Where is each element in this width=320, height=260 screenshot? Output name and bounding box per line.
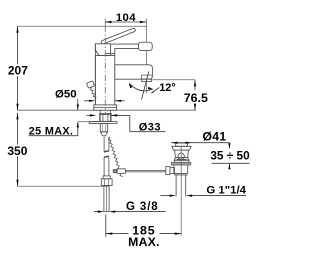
- arrow 207 up: [16, 26, 18, 33]
- cap notch diagonal: [95, 50, 99, 55]
- dim 104 line: [105, 21, 146, 23]
- dim 207 line: [17, 26, 19, 64]
- svg-text:35 ÷ 50: 35 ÷ 50: [210, 148, 250, 162]
- body left wall: [94, 44, 96, 105]
- svg-text:350: 350: [7, 144, 27, 158]
- arrow 207 down: [16, 104, 18, 111]
- rod: [113, 169, 174, 171]
- cartridge cap: [95, 44, 110, 56]
- arrow 35-50 up: [228, 164, 230, 169]
- wire: 76.5 top extension from spout: [153, 79, 195, 81]
- tailpipe walls: [175, 175, 177, 197]
- dim 350 line: [17, 113, 19, 145]
- break cut top: [104, 151, 109, 152]
- wire: D33 underline: [130, 131, 166, 133]
- svg-text:207: 207: [8, 64, 28, 78]
- hose collar: [103, 176, 110, 179]
- wire: leader vertical: [129, 115, 131, 131]
- rod nut at drain: [166, 167, 170, 175]
- arrow 104 right: [140, 21, 147, 23]
- dim segments: [106, 233, 129, 235]
- left extension: [105, 214, 107, 236]
- gasket (shaded): [171, 162, 191, 165]
- drain centerline / 185 right extension: [180, 147, 182, 236]
- arrow d50 right: [115, 100, 121, 102]
- rod end cap: [113, 170, 116, 173]
- arrow d41 right: [186, 142, 192, 144]
- wire: leader horizontal: [111, 114, 130, 116]
- plug seat line: [177, 158, 187, 160]
- spout block: [115, 65, 153, 79]
- arrow d50 leader down: [77, 105, 79, 110]
- body shoulder line: [105, 53, 115, 55]
- 35-50 stub top: [228, 143, 230, 149]
- left segment: [161, 195, 170, 197]
- leader to text: [151, 87, 159, 93]
- underline: [115, 211, 165, 213]
- wire: right tail: [115, 100, 125, 102]
- wire: leader down to deck: [77, 99, 79, 110]
- lock nut: [100, 114, 111, 121]
- wire: 350 bottom extension line: [18, 185, 109, 187]
- 35-50 bottom line: [212, 162, 250, 164]
- body top edge: [95, 55, 114, 57]
- big washer: [89, 122, 117, 124]
- arrow d33 right: [111, 114, 117, 116]
- rod clevis block: [117, 169, 125, 174]
- wire: riser to washer: [77, 122, 79, 136]
- arrow 25max up: [77, 122, 79, 128]
- base plinth: [94, 105, 117, 110]
- svg-text:104: 104: [116, 12, 136, 24]
- svg-text:Ø33: Ø33: [139, 122, 161, 134]
- aerator protrusion: [142, 79, 152, 81]
- aerator inner lines: [141, 74, 152, 76]
- plug cup: [175, 150, 189, 158]
- hose lower segment: [103, 157, 105, 176]
- arrow 350 down: [16, 180, 18, 187]
- arrow d41 left: [171, 142, 177, 144]
- angle arc: [129, 83, 153, 91]
- svg-text:G 3/8: G 3/8: [126, 201, 159, 213]
- washer under deck: [99, 113, 112, 115]
- left tail: [94, 211, 98, 213]
- tilted aerator axis: [142, 72, 149, 100]
- arrow 185 right: [175, 233, 182, 235]
- svg-text:Ø41: Ø41: [203, 129, 227, 143]
- break cut bottom: [104, 156, 109, 157]
- D41 line: [171, 142, 229, 144]
- pop-up rod spring (diagonal): [108, 137, 122, 177]
- plug bell: [174, 158, 189, 161]
- pop-up upper spring: [90, 87, 96, 99]
- arrow d33 left: [90, 114, 96, 116]
- dim 76.5 line: [194, 80, 196, 91]
- 35-50 stub bottom: [228, 163, 230, 169]
- arrow 185 left: [106, 233, 113, 235]
- wire: washer reference line: [78, 121, 100, 123]
- threaded tail: [100, 124, 107, 132]
- shank walls: [99, 110, 101, 121]
- svg-text:12°: 12°: [159, 82, 176, 94]
- wire: underline of 25 MAX: [29, 135, 79, 137]
- handle lever (closed position) bar: [107, 44, 139, 48]
- arrow 76.5 down: [194, 104, 196, 111]
- body right wall: [114, 48, 116, 105]
- plug flange: [172, 146, 191, 150]
- svg-text:25 MAX.: 25 MAX.: [29, 126, 73, 138]
- hose end tube: [104, 186, 109, 212]
- arrow g114 left: [170, 195, 176, 197]
- arrow d50 left: [89, 100, 95, 102]
- tail cone tip: [100, 132, 107, 136]
- pop-up knob behind faucet: [86, 81, 94, 89]
- wire: left tail: [87, 114, 91, 116]
- arrow 35-50 down: [228, 143, 230, 148]
- arrow 76.5 up: [194, 80, 196, 87]
- arrow 350 up: [16, 113, 18, 120]
- underline segment: [192, 195, 246, 197]
- svg-text:MAX.: MAX.: [128, 235, 160, 249]
- coupling rings: [174, 173, 188, 175]
- label 207 (with halo): [7, 65, 30, 76]
- svg-text:G 1"1/4: G 1"1/4: [206, 185, 246, 197]
- plug top knob: [176, 143, 188, 146]
- svg-text:76.5: 76.5: [184, 91, 208, 105]
- wire: 207 top extension line: [18, 25, 147, 27]
- wire: deck / countertop line: [18, 109, 196, 111]
- wire: left tail: [84, 100, 89, 102]
- hose upper segment: [103, 137, 105, 152]
- label 350 (with halo): [6, 145, 29, 156]
- svg-text:Ø50: Ø50: [55, 88, 77, 100]
- arrow arc left: [129, 83, 133, 88]
- arrow g114 right: [186, 195, 192, 197]
- handle lever (raised position): [101, 28, 136, 45]
- bell plate: [174, 160, 189, 162]
- arrow g38 right: [109, 211, 115, 213]
- label 76.5 (with halo): [182, 91, 211, 103]
- base step line: [94, 107, 117, 109]
- arrow g38 left: [98, 211, 104, 213]
- arrow arc right: [148, 87, 154, 90]
- hose nut: [101, 179, 112, 186]
- arrow leader: [151, 90, 156, 94]
- plug ball: [178, 153, 184, 159]
- wire: 104 right extension / aerator axis: [145, 19, 147, 94]
- handle grip end tab: [139, 42, 153, 50]
- arrow 104 left: [105, 21, 112, 23]
- faucet centerline: [104, 19, 106, 26]
- waste body walls: [173, 165, 175, 173]
